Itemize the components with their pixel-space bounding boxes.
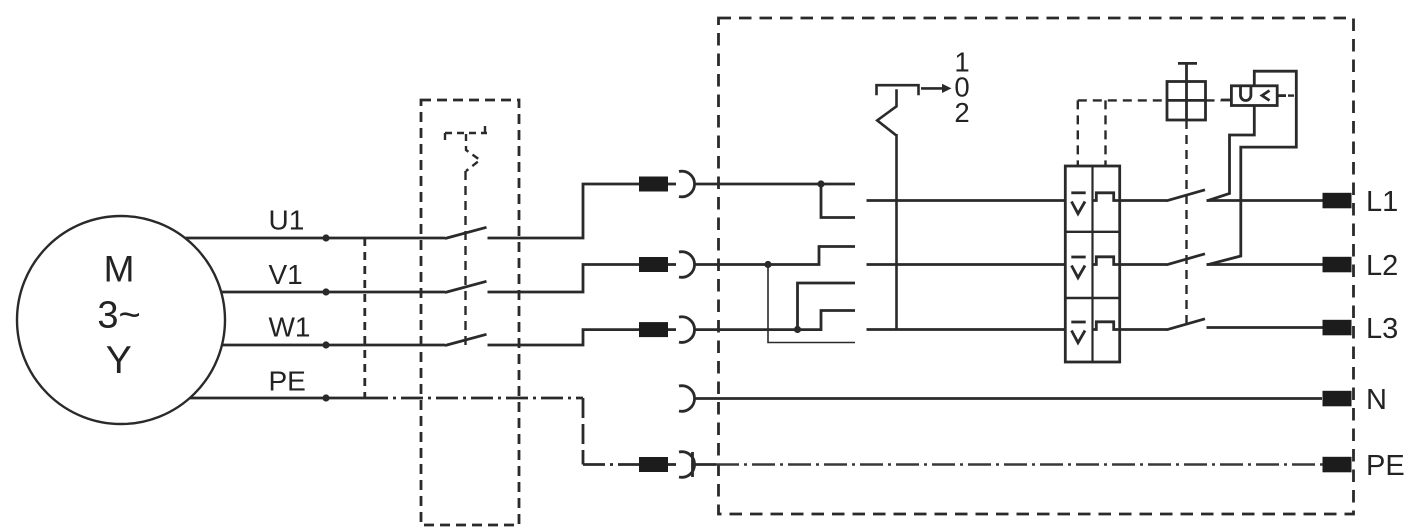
- svg-text:Y: Y: [106, 339, 132, 382]
- svg-text:L3: L3: [1366, 313, 1398, 345]
- svg-text:N: N: [1366, 384, 1387, 416]
- svg-text:PE: PE: [269, 366, 306, 397]
- svg-text:L1: L1: [1366, 186, 1398, 218]
- svg-text:M: M: [104, 249, 135, 290]
- svg-text:3~: 3~: [97, 295, 140, 337]
- svg-text:2: 2: [954, 97, 969, 128]
- svg-text:V1: V1: [269, 259, 303, 290]
- svg-text:L2: L2: [1366, 250, 1398, 282]
- svg-text:W1: W1: [269, 312, 311, 343]
- svg-text:PE: PE: [1366, 450, 1404, 482]
- svg-text:U1: U1: [269, 205, 305, 236]
